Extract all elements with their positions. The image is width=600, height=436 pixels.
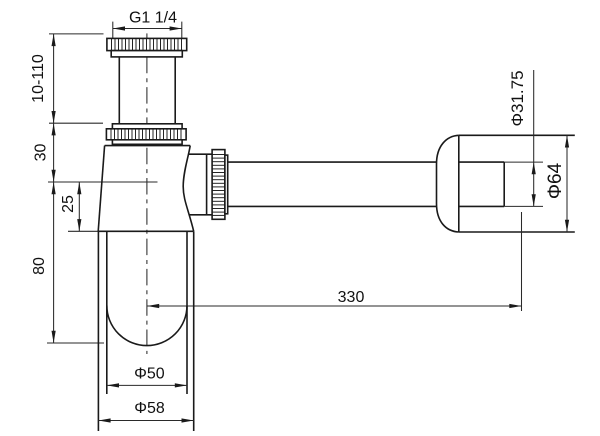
svg-text:Φ64: Φ64	[545, 162, 566, 199]
extension line pipe top right	[504, 161, 543, 163]
inlet pipe right wall	[174, 57, 176, 124]
cup inner left wall	[106, 231, 108, 394]
outlet tube bottom	[189, 214, 212, 216]
extension line 25 bottom	[68, 230, 98, 232]
arrow phi50 left	[107, 383, 119, 387]
arrow phi31.75 bottom	[532, 194, 536, 206]
trap body bottom edge	[98, 230, 193, 232]
arrow G1 left	[113, 26, 125, 30]
extension line 330 right	[521, 212, 523, 311]
arrow 30 bottom	[52, 170, 56, 182]
cup inner bottom arc	[107, 306, 187, 346]
dimension line phi50	[107, 384, 187, 386]
upper nut knurled band	[107, 38, 187, 50]
outlet tube top	[188, 153, 212, 155]
extension line pipe bottom right	[504, 205, 543, 207]
arrow 80 top	[52, 182, 56, 194]
svg-text:25: 25	[60, 195, 77, 213]
trap body top edge	[105, 145, 191, 147]
trap body right edge with outlet fillet	[183, 146, 194, 232]
extension line top of upper nut	[49, 33, 104, 35]
wall flange bottom edge	[459, 231, 575, 233]
centerline vertical axis	[146, 33, 148, 39]
arrow 80 bottom	[52, 331, 56, 343]
arrow 330 right	[509, 304, 521, 308]
wall pipe bottom	[228, 205, 437, 207]
pipe inside flange top	[459, 161, 504, 163]
extension line top of lower nut	[49, 122, 103, 124]
svg-text:330: 330	[338, 289, 365, 306]
wall flange top edge	[459, 134, 575, 136]
outlet tube divider	[206, 154, 208, 215]
dimension line phi64	[566, 135, 568, 232]
dimension line phi31.75	[533, 70, 535, 206]
arrow phi31.75 top	[532, 162, 536, 174]
dimension G1 1/4 extension right	[181, 22, 183, 39]
outlet nut knurled band	[212, 150, 225, 220]
lower nut knurling	[111, 129, 181, 140]
svg-text:Φ50: Φ50	[134, 366, 165, 383]
cup outer left wall	[97, 231, 99, 431]
outlet nut right rim	[225, 155, 228, 214]
svg-text:G1 1/4: G1 1/4	[129, 10, 177, 27]
lower nut lower rim	[112, 140, 182, 145]
cup outer right wall	[193, 231, 195, 431]
wall flange edge line	[458, 135, 460, 232]
lower nut upper rim	[112, 124, 182, 129]
extension line 80 bottom	[47, 342, 104, 344]
dimension G1 1/4 extension left	[112, 22, 114, 39]
arrow 25 bottom	[77, 219, 81, 231]
extension line pipe axis level	[48, 181, 158, 183]
arrow 30 top	[52, 123, 56, 135]
arrow phi58 left	[98, 418, 110, 422]
inlet pipe left wall	[118, 57, 120, 124]
arrow phi50 right	[175, 383, 187, 387]
dimension G1 1/4 line	[113, 28, 182, 30]
svg-text:Φ58: Φ58	[134, 400, 165, 417]
arrow phi58 right	[182, 418, 194, 422]
pipe end	[503, 162, 505, 206]
upper nut lower rim	[111, 51, 182, 57]
upper nut knurling	[112, 38, 182, 50]
wall pipe top	[228, 161, 437, 163]
lower nut knurled band	[106, 129, 186, 140]
arrow G1 right	[170, 26, 182, 30]
dimension line 25	[78, 182, 80, 231]
arrow phi64 top	[565, 135, 569, 147]
arrow 10-110 top	[52, 34, 56, 46]
svg-text:30: 30	[33, 144, 50, 162]
dimension line phi58	[98, 420, 193, 422]
arrow 25 top	[77, 182, 81, 194]
arrow phi64 bottom	[565, 220, 569, 232]
wall flange rounded cap	[437, 135, 459, 232]
outlet nut knurling	[212, 155, 225, 216]
dimension line vertical left	[53, 34, 55, 343]
arrow 10-110 bottom	[52, 111, 56, 123]
pipe inside flange bottom	[459, 205, 504, 207]
trap body left edge	[98, 146, 104, 232]
svg-text:10-110: 10-110	[30, 54, 47, 103]
dimension line 330	[147, 305, 522, 307]
cup inner right wall	[186, 231, 188, 394]
arrow 330 left	[147, 304, 159, 308]
svg-text:Φ31.75: Φ31.75	[508, 70, 527, 126]
svg-text:80: 80	[31, 257, 48, 275]
